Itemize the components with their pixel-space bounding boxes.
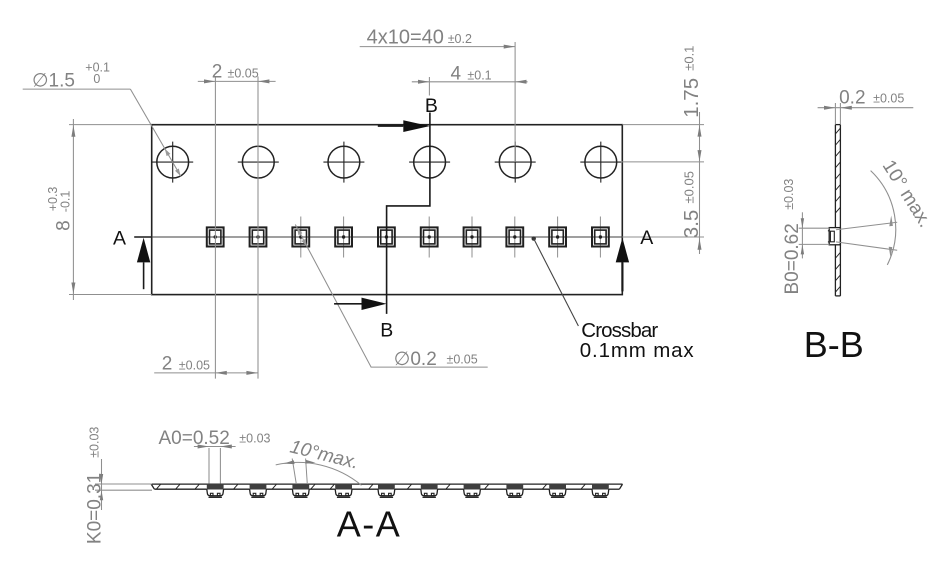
svg-text:B: B xyxy=(380,320,393,342)
svg-text:A: A xyxy=(113,228,126,250)
svg-text:2: 2 xyxy=(162,353,173,374)
svg-text:0.1mm max: 0.1mm max xyxy=(580,339,695,362)
svg-text:±0.2: ±0.2 xyxy=(448,32,472,46)
svg-text:K0=0.31: K0=0.31 xyxy=(85,473,106,544)
svg-text:∅1.5: ∅1.5 xyxy=(32,70,75,91)
svg-text:4x10=40: 4x10=40 xyxy=(367,27,444,49)
svg-text:B: B xyxy=(425,95,438,117)
svg-text:±0.05: ±0.05 xyxy=(179,358,210,372)
svg-text:4: 4 xyxy=(451,63,462,84)
svg-text:±0.05: ±0.05 xyxy=(682,171,697,203)
svg-text:3.5: 3.5 xyxy=(680,210,703,239)
svg-text:±0.03: ±0.03 xyxy=(239,432,270,446)
svg-text:±0.03: ±0.03 xyxy=(88,427,102,458)
svg-text:±0.05: ±0.05 xyxy=(447,353,478,367)
svg-text:±0.05: ±0.05 xyxy=(228,66,259,80)
svg-text:±0.1: ±0.1 xyxy=(682,46,697,71)
svg-text:∅0.2: ∅0.2 xyxy=(394,349,437,370)
svg-text:-0.1: -0.1 xyxy=(58,191,72,213)
svg-text:±0.03: ±0.03 xyxy=(782,179,796,210)
svg-text:2: 2 xyxy=(212,61,223,82)
svg-text:±0.1: ±0.1 xyxy=(467,68,491,82)
svg-text:0.2: 0.2 xyxy=(839,87,865,108)
svg-text:B0=0.62: B0=0.62 xyxy=(782,223,803,294)
svg-text:±0.05: ±0.05 xyxy=(873,91,904,105)
svg-text:1.75: 1.75 xyxy=(680,78,703,118)
svg-text:8: 8 xyxy=(53,220,74,231)
svg-text:A0=0.52: A0=0.52 xyxy=(159,428,230,449)
svg-text:A: A xyxy=(640,227,653,249)
svg-text:0: 0 xyxy=(93,72,100,86)
svg-text:B-B: B-B xyxy=(804,324,864,365)
svg-text:A-A: A-A xyxy=(337,504,402,545)
